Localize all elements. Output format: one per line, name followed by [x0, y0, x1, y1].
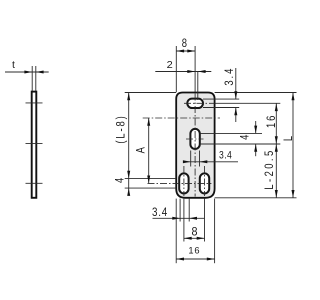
svg-text:L-20.5: L-20.5 [263, 148, 277, 189]
svg-text:2: 2 [167, 59, 173, 71]
svg-text:3.4: 3.4 [219, 150, 232, 162]
svg-text:16: 16 [265, 114, 279, 128]
svg-text:8: 8 [182, 37, 187, 51]
svg-text:8: 8 [191, 226, 197, 239]
svg-text:16: 16 [188, 246, 200, 256]
svg-text:3.4: 3.4 [152, 206, 168, 219]
svg-text:t: t [12, 59, 15, 71]
svg-text:L: L [282, 136, 296, 141]
svg-text:(L-8): (L-8) [114, 114, 128, 143]
svg-text:4: 4 [113, 178, 127, 183]
svg-text:A: A [134, 146, 148, 153]
svg-text:3.4: 3.4 [223, 67, 237, 86]
svg-text:4: 4 [238, 135, 252, 140]
